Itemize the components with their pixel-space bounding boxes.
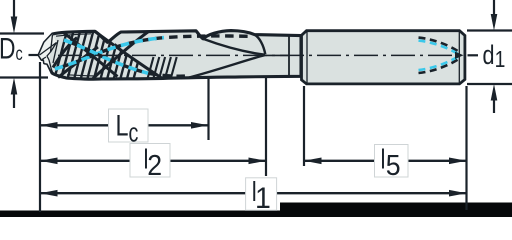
svg-text:L: L (116, 109, 129, 142)
svg-text:5: 5 (386, 149, 401, 181)
svg-text:c: c (129, 118, 139, 147)
svg-text:1: 1 (255, 182, 271, 215)
svg-text:l: l (381, 144, 386, 175)
svg-text:D: D (0, 31, 15, 65)
svg-text:2: 2 (147, 149, 162, 181)
svg-text:1: 1 (495, 48, 506, 73)
svg-text:d: d (483, 41, 495, 71)
svg-text:c: c (16, 43, 23, 64)
